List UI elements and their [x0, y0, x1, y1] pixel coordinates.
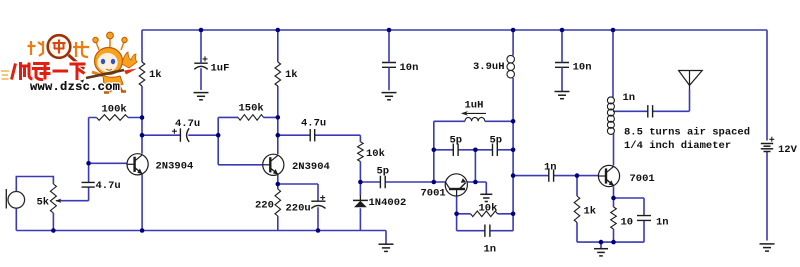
capacitor C9 1n	[485, 225, 490, 237]
capacitor C2 4.7u	[82, 182, 95, 187]
node Q3 base junctions	[432, 148, 437, 153]
wire Q4 emitter node	[614, 187, 645, 243]
node Q3 emitter junctions	[473, 148, 478, 153]
wire Q1 emitter	[141, 174, 143, 230]
svg-text:5p: 5p	[450, 135, 463, 147]
capacitor C6 5p input	[380, 176, 385, 188]
svg-text:220: 220	[255, 200, 274, 212]
svg-text:12V: 12V	[778, 144, 798, 156]
svg-text:4.7u: 4.7u	[301, 118, 326, 130]
node diode junction	[358, 180, 363, 185]
capacitor C8 5p	[493, 144, 498, 156]
node Q2 emitter junction	[276, 182, 281, 187]
svg-text:1n: 1n	[623, 92, 636, 104]
capacitor C10 10n	[382, 63, 396, 68]
node Q3 collector junction	[454, 212, 459, 217]
capacitor C12 1n antenna coupling	[648, 105, 653, 117]
capacitor C7 5p	[453, 144, 458, 156]
wire Q2 collector column	[277, 30, 279, 154]
capacitor C14 1n emitter bypass	[637, 216, 651, 221]
transistor Q4 7001 PA	[598, 165, 619, 186]
svg-text:4.7u: 4.7u	[96, 180, 121, 192]
capacitor C4 4.7u coupling	[310, 129, 315, 141]
node Q2 collector junctions	[276, 115, 281, 120]
wire 220u branch	[278, 184, 318, 231]
svg-text:1n: 1n	[484, 244, 497, 256]
node Q1 base junction	[86, 161, 91, 166]
node Q4 emitter junction	[611, 196, 616, 201]
resistor R8 10k feedback	[471, 211, 498, 217]
wire Q3 collector node with 10k and 1n	[457, 196, 513, 231]
watermark dzsc logo	[1, 32, 137, 94]
svg-text:3.9uH: 3.9uH	[473, 61, 505, 73]
wire Q3 emitter to ground stub	[467, 182, 487, 194]
wire 10k column and diode	[359, 135, 361, 230]
microphone MIC1	[8, 192, 25, 209]
svg-text:10: 10	[621, 217, 634, 229]
svg-text:2N3904: 2N3904	[156, 161, 194, 173]
ground at Q3 emitter	[480, 193, 492, 195]
svg-text:1/4 inch diameter: 1/4 inch diameter	[624, 140, 731, 152]
svg-text:1k: 1k	[149, 69, 162, 81]
node feedback junction	[216, 133, 221, 138]
node dots on supply rail	[199, 28, 204, 33]
potentiometer R3 5k	[50, 184, 56, 213]
svg-text:1N4002: 1N4002	[369, 197, 407, 209]
svg-text:1k: 1k	[584, 206, 597, 218]
resistor R2 100k	[97, 115, 129, 121]
battery B1 12V	[761, 143, 773, 145]
wire Q2 emitter node	[277, 175, 279, 231]
ground under C1	[194, 92, 209, 94]
wire Q1 collector to C3 4.7u and 150k loop	[142, 117, 278, 135]
wire Q2 base branch	[218, 135, 263, 165]
wire 1k bias Q4	[576, 176, 578, 243]
node dots on 3.9uH column	[511, 119, 516, 124]
svg-text:1uH: 1uH	[465, 100, 484, 112]
ground main rail	[379, 243, 394, 245]
svg-text:1n: 1n	[656, 217, 669, 229]
wire 5p input to Q3 base	[360, 181, 445, 183]
svg-text:10n: 10n	[400, 62, 419, 74]
transistor Q2 2N3904	[263, 154, 284, 175]
wire 5p divider row	[434, 150, 513, 182]
wire antenna tap through 1n	[613, 89, 690, 111]
node Q4 base junction	[575, 173, 580, 178]
capacitor C3 4.7u electrolytic coupling	[179, 128, 181, 141]
svg-text:4.7u: 4.7u	[175, 118, 200, 130]
wire PA bottom ground run	[577, 220, 644, 248]
ground under battery	[760, 243, 775, 245]
wire mic loop and pot	[16, 177, 53, 231]
resistor R1 1k	[139, 62, 145, 86]
ground under C10	[382, 92, 397, 94]
antenna ANT1	[679, 71, 703, 90]
diode D1 1N4002	[359, 195, 361, 200]
wire Q4 collector to tank coil	[613, 134, 615, 166]
wire tank coil column	[612, 30, 614, 97]
inductor L1 3.9uH	[507, 55, 515, 63]
capacitor C11 10n	[555, 63, 569, 68]
node PA ground junctions	[599, 240, 604, 245]
svg-text:8.5 turns air spaced: 8.5 turns air spaced	[624, 127, 750, 139]
svg-text:2N3904: 2N3904	[292, 161, 330, 173]
node Q1 collector junctions	[140, 115, 145, 120]
capacitor C1 1uF electrolytic	[194, 62, 207, 64]
svg-text:5k: 5k	[37, 197, 50, 209]
wire 3.9uH column	[512, 30, 514, 214]
svg-text:10k: 10k	[479, 203, 498, 215]
transistor Q1 2N3904	[127, 154, 148, 175]
wire 1n coupling to Q4 base	[513, 175, 598, 177]
svg-text:100k: 100k	[102, 104, 127, 116]
svg-text:1n: 1n	[544, 162, 557, 174]
resistor R4 150k	[238, 115, 264, 121]
wire 100k branch and Q1 base	[89, 118, 142, 164]
wire Q1 collector column	[141, 30, 143, 154]
ground under C11	[555, 91, 570, 93]
svg-text:150k: 150k	[239, 103, 264, 115]
wire top supply rail	[142, 29, 767, 31]
svg-text:220u: 220u	[286, 203, 311, 215]
svg-text:5p: 5p	[377, 166, 390, 178]
capacitor C13 1n coupling to PA	[549, 169, 554, 181]
capacitor C5 220u electrolytic	[311, 200, 325, 202]
svg-text:7001: 7001	[630, 173, 655, 185]
svg-text:1k: 1k	[285, 69, 298, 81]
wire ground rail bottom	[16, 231, 386, 244]
svg-text:5p: 5p	[490, 135, 503, 147]
wire 4.7u C2 to pot wiper	[60, 163, 89, 200]
resistor R5 1k	[275, 62, 281, 86]
svg-text:10n: 10n	[573, 62, 592, 74]
resistor R10 10	[611, 207, 617, 229]
ground PA stage	[594, 248, 608, 250]
resistor R6 220	[275, 189, 281, 216]
resistor R7 10k	[358, 142, 364, 162]
inductor L3 tank coil 8.5 turns	[607, 97, 614, 104]
svg-text:7001: 7001	[421, 188, 446, 200]
wire 1uH feedback column	[434, 121, 513, 182]
svg-text:1uF: 1uF	[211, 63, 230, 75]
node dots on ground rail	[51, 228, 56, 233]
transistor Q3 7001 oscillator	[445, 174, 467, 196]
svg-text:10k: 10k	[366, 148, 385, 160]
svg-text:www.dzsc.com: www.dzsc.com	[30, 80, 120, 94]
inductor L2 1uH	[465, 117, 485, 121]
resistor R9 1k	[574, 196, 580, 222]
wire 4.7u C4 output run	[278, 134, 361, 136]
wire battery drop right side	[766, 30, 768, 241]
pot wiper arrow	[56, 200, 61, 202]
